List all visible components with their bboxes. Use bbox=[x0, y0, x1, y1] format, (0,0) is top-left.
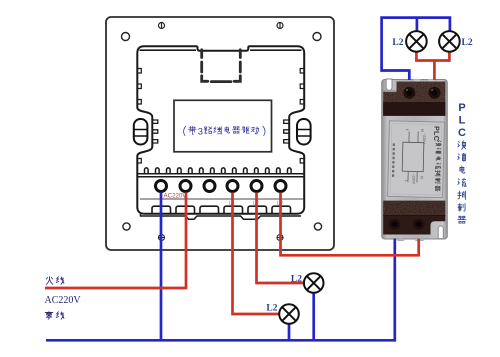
PLC filter module case bbox=[382, 80, 448, 240]
PLC bottom screw right bbox=[413, 219, 424, 230]
svg-text:L: L bbox=[405, 129, 409, 131]
screw hole bottom-left bbox=[123, 223, 130, 230]
wire: bottom neutral rail blue bbox=[46, 239, 395, 341]
wire: blue top feed from PLC to top lamps bbox=[382, 18, 450, 80]
PLC top screw right bbox=[428, 87, 440, 99]
PLC label tiny left text (simulated) bbox=[392, 143, 395, 176]
inner switch module outline bbox=[137, 46, 304, 214]
wire: neutral blue from terminal 1 down to bottom rail bbox=[160, 193, 163, 341]
svg-text:~220V: ~220V bbox=[411, 173, 415, 184]
svg-text:AC220V: AC220V bbox=[45, 295, 82, 306]
screw hole top-right bbox=[313, 33, 321, 41]
cross screw bottom-right bbox=[277, 235, 283, 241]
PLC top screw left bbox=[403, 87, 415, 99]
dashed mounting window side pills bbox=[202, 62, 241, 72]
L1 L2 L3 output labels bbox=[229, 201, 283, 207]
svg-text:C: C bbox=[458, 127, 466, 139]
relay label box bbox=[174, 100, 272, 152]
slot screw top-left bbox=[159, 23, 165, 29]
wire: red terminal 6 to PLC bottom bbox=[281, 193, 419, 256]
right retaining clip bbox=[297, 119, 311, 145]
PLC label circuit box bbox=[402, 142, 424, 172]
wire: red link between top lamps to PLC top bbox=[416, 52, 449, 80]
PLC bottom-right mounting notch bbox=[438, 226, 443, 239]
svg-text:L2: L2 bbox=[462, 38, 473, 48]
svg-text:PLC: PLC bbox=[432, 126, 441, 141]
slot screw top-right bbox=[277, 23, 283, 29]
right edge ticks bbox=[300, 69, 304, 164]
svg-text:L2: L2 bbox=[392, 38, 403, 48]
PLC bottom screw left bbox=[389, 219, 400, 230]
inner module top edge second line bbox=[140, 49, 302, 51]
svg-text:L2: L2 bbox=[266, 304, 277, 314]
screw hole top-left bbox=[122, 33, 130, 41]
PLC vertical caption: P L C lang yong dian liu yi zhi qi bbox=[458, 102, 466, 139]
wire: blue drop from mid lamp A to rail bbox=[312, 293, 315, 340]
label: ling xian (neutral wire) bbox=[45, 312, 64, 320]
terminal strip lower line bbox=[140, 198, 304, 200]
terminal 2 bbox=[180, 181, 191, 192]
svg-text:3: 3 bbox=[198, 126, 203, 136]
wire: red terminal 5 to lamp A bbox=[257, 193, 304, 284]
terminal 1 bbox=[156, 181, 167, 192]
terminal 4 bbox=[227, 181, 238, 192]
lamp L2 top-left bbox=[406, 31, 427, 52]
terminal 6 bbox=[275, 181, 286, 192]
terminal block comb bbox=[145, 168, 292, 173]
svg-text:P: P bbox=[458, 102, 465, 114]
lamp L2 top-right bbox=[439, 31, 460, 52]
PLC label pin texts bbox=[404, 129, 426, 185]
wire: blue branch to top lamp 1 bbox=[416, 18, 419, 31]
svg-text:~220V: ~220V bbox=[422, 133, 426, 144]
left clip notches bbox=[152, 120, 158, 143]
wire: red terminal 4 to lamp B bbox=[233, 193, 280, 315]
PLC label panel bbox=[388, 121, 445, 198]
PLC top-left mounting notch bbox=[386, 79, 392, 90]
PLC label rotated title text bbox=[431, 126, 442, 191]
cross screw bottom-left bbox=[159, 235, 165, 241]
svg-text:AC220V: AC220V bbox=[164, 193, 188, 200]
terminal 3 bbox=[204, 181, 215, 192]
terminal tabs row bbox=[152, 206, 291, 213]
PLC case top cap groove bbox=[383, 90, 446, 92]
relay label text (dai 3 lu ji dian qi qu dong) bbox=[184, 126, 197, 135]
dashed mounting window bottom pill bbox=[211, 80, 231, 83]
left retaining clip bbox=[134, 119, 148, 145]
module bottom lip with trapezoid dips bbox=[141, 214, 302, 220]
left edge ticks bbox=[137, 69, 141, 164]
wall switch panel outer plate bbox=[106, 17, 334, 250]
screw hole bottom-right bbox=[314, 223, 321, 230]
lamp L2 low (lower) bbox=[279, 304, 299, 324]
svg-text:L2: L2 bbox=[291, 275, 302, 285]
dashed mounting window corner Ls bbox=[202, 76, 241, 82]
wire: live red rail to terminal 2 bbox=[45, 193, 186, 289]
PLC top dark band bbox=[383, 102, 445, 116]
terminal strip double rail bbox=[138, 174, 304, 177]
right clip notches bbox=[284, 120, 290, 143]
label: huo xian (live wire) bbox=[46, 277, 64, 285]
svg-text:L: L bbox=[404, 180, 408, 182]
terminal 5 bbox=[251, 181, 262, 192]
PLC bottom block seam bbox=[383, 215, 445, 217]
PLC top terminal block (speckled) bbox=[383, 82, 445, 116]
PLC top wire entry tabs bbox=[413, 79, 420, 82]
wire: blue drop from mid lamp B to rail bbox=[288, 324, 291, 340]
dashed mounting window top pills bbox=[202, 50, 241, 58]
PLC bottom wire tabs bbox=[398, 239, 404, 241]
PLC bottom terminal block bbox=[383, 201, 445, 235]
svg-text:L: L bbox=[459, 115, 466, 127]
lamp L2 mid (upper) bbox=[304, 273, 324, 293]
